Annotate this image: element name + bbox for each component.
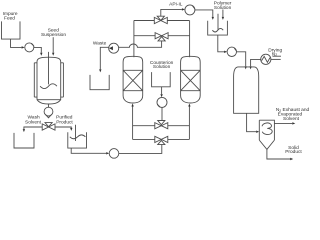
wire V3 left to C1 top xyxy=(134,20,154,22)
valve V5 three-way bottom upper xyxy=(155,123,162,129)
pump P3 purified product xyxy=(109,149,119,159)
liquid level wave T6 xyxy=(212,28,223,32)
pipe C1 top xyxy=(133,21,135,58)
wire P1 to crystallizer xyxy=(34,47,42,52)
wire V3 stem to pump P5 xyxy=(161,9,182,16)
tank T1 Impure Feed xyxy=(2,21,21,39)
wire P4 to valve V5 xyxy=(161,107,163,120)
wire V5 right to C2 bottom pipe xyxy=(168,125,190,127)
wire seed suspension to crystallizer xyxy=(52,37,54,53)
wire dryer to cyclone xyxy=(247,113,257,131)
svg-text:Product: Product xyxy=(285,149,302,155)
valve V2 three-way crystallizer outlet xyxy=(45,123,52,127)
pump P5 API-IL xyxy=(185,5,195,15)
vessel V1 jacket xyxy=(34,63,37,97)
agitator shaft xyxy=(48,52,50,85)
tank T4 purified product xyxy=(68,132,87,148)
wire V5 left to C1 bottom pipe xyxy=(133,125,155,127)
heater H1 drying N2 xyxy=(261,54,271,64)
wire N2 exhaust xyxy=(274,122,292,124)
wire crystallizer bottom outlet xyxy=(48,104,50,108)
pump P4 counterion xyxy=(157,97,167,107)
pump P1 feed xyxy=(25,43,34,52)
tank T3 wash solvent xyxy=(14,133,34,148)
N2 label underline xyxy=(273,55,282,57)
wire T5 to pump P4 xyxy=(161,87,163,95)
pipe C1 bottom xyxy=(132,107,134,140)
svg-text:Solvent: Solvent xyxy=(283,116,300,122)
filter drop shape xyxy=(44,107,53,116)
wire valve V4 to P2 with hop xyxy=(119,41,162,48)
tank T2 waste xyxy=(90,75,109,90)
pipe C2 top xyxy=(189,21,191,58)
tank T5 counterion solution xyxy=(152,72,171,87)
wire P3 to bottom valve V6 xyxy=(119,144,162,153)
wire V4 left to C1 pipe xyxy=(134,35,155,37)
liquid level wave V1 xyxy=(40,84,57,89)
wire V6 left to C1 bottom pipe xyxy=(133,138,155,140)
dip tube T4 xyxy=(75,125,77,141)
wire V3 right to C2 top xyxy=(167,20,189,22)
svg-text:Product: Product xyxy=(56,120,73,126)
svg-text:Feed: Feed xyxy=(4,16,15,22)
pump P6 polymer feed xyxy=(227,47,236,56)
wire polymer solution label leader xyxy=(222,10,224,17)
wire P6 to dryer xyxy=(237,52,246,67)
wire T4 to pump P3 xyxy=(71,148,106,153)
wire V6 right to C2 bottom pipe xyxy=(168,138,190,140)
wire impure feed to pump P1 xyxy=(11,39,22,47)
wire V4 right to C2 pipe xyxy=(168,35,189,37)
valve V4 three-way top lower xyxy=(155,33,162,39)
wire T6 to pump P6 xyxy=(218,35,224,52)
column C2 right xyxy=(181,56,201,103)
column C1 left xyxy=(123,56,143,103)
dip tube T6 xyxy=(217,14,219,30)
wire wash solvent branch xyxy=(24,127,42,129)
valve V6 three-way bottom lower xyxy=(155,136,162,142)
svg-text:Solvent: Solvent xyxy=(25,120,42,126)
wire N2 into heater xyxy=(271,58,281,60)
valve V3 three-way top upper xyxy=(154,17,161,23)
wire heater to dryer xyxy=(251,59,261,66)
svg-text:N2: N2 xyxy=(272,51,277,57)
vessel V1 crystallizer body xyxy=(37,57,61,99)
svg-text:API-IL: API-IL xyxy=(169,1,183,7)
svg-text:Suspension: Suspension xyxy=(41,32,66,38)
svg-text:Solution: Solution xyxy=(153,64,171,70)
liquid level wave T4 xyxy=(70,135,86,139)
wire P5 to polymer tank xyxy=(195,10,213,17)
tank T6 polymer mix xyxy=(208,21,228,35)
vessel D1 spray dryer xyxy=(234,67,259,113)
svg-text:Solution: Solution xyxy=(214,5,232,11)
cyclone K1 xyxy=(259,120,274,140)
wire purified product branch xyxy=(55,126,71,129)
wire P2 to waste tank xyxy=(100,47,109,69)
svg-text:Waste: Waste xyxy=(93,41,107,47)
pipe C2 bottom xyxy=(188,107,190,140)
pump P2 waste xyxy=(109,43,119,53)
wire solid product xyxy=(267,149,290,159)
